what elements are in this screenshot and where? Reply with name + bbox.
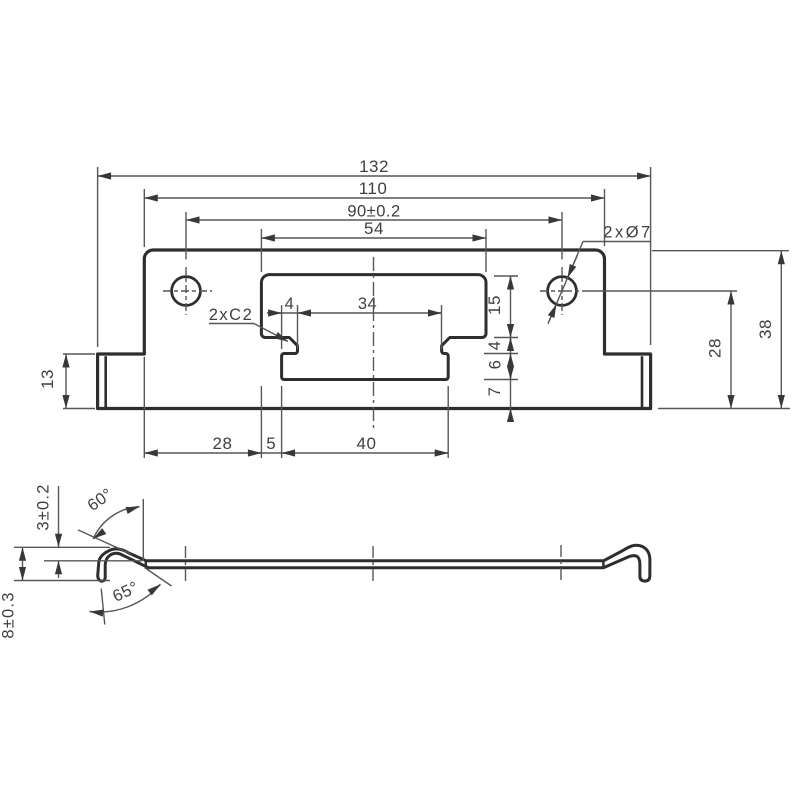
svg-text:110: 110 bbox=[359, 179, 388, 198]
svg-text:8±0.3: 8±0.3 bbox=[0, 591, 18, 638]
dim 28 (right side) bbox=[730, 291, 732, 409]
svg-text:65°: 65° bbox=[110, 578, 142, 605]
svg-text:28: 28 bbox=[706, 338, 725, 358]
left bend line bbox=[104, 356, 107, 407]
dim chain 15/4/6/7 (right of cutout) bbox=[484, 276, 518, 421]
svg-text:13: 13 bbox=[38, 369, 57, 389]
dim 110 bbox=[144, 189, 604, 247]
svg-text:132: 132 bbox=[359, 157, 389, 176]
side view: profile outline bbox=[98, 545, 650, 581]
svg-text:15: 15 bbox=[485, 295, 504, 315]
top view: plate outer outline bbox=[98, 250, 651, 409]
angle 60° bbox=[78, 499, 143, 561]
svg-text:34: 34 bbox=[358, 295, 377, 313]
dim 28 / 5 / 40 (bottom) bbox=[144, 357, 448, 458]
svg-text:4: 4 bbox=[285, 295, 295, 313]
cutout centerline bbox=[373, 257, 375, 428]
dim 13 (left) bbox=[63, 354, 95, 409]
left hole bbox=[172, 277, 201, 306]
right hole centerlines bbox=[540, 267, 737, 315]
dim 38 (far right) bbox=[652, 251, 790, 409]
svg-text:6: 6 bbox=[487, 360, 505, 370]
left hole centerlines bbox=[163, 267, 212, 315]
dim 132 bbox=[98, 167, 651, 347]
svg-text:38: 38 bbox=[756, 319, 775, 339]
dim 3±0.2 (side view) bbox=[14, 486, 142, 578]
svg-text:7: 7 bbox=[486, 387, 504, 397]
dim 90±0.2 bbox=[186, 212, 562, 260]
svg-text:5: 5 bbox=[266, 434, 276, 453]
projection ticks bbox=[186, 545, 562, 581]
angle 65° bbox=[90, 568, 172, 625]
svg-text:54: 54 bbox=[364, 219, 384, 238]
dim 54 bbox=[261, 229, 486, 272]
right bend line bbox=[641, 356, 644, 407]
cutout contour bbox=[261, 275, 486, 380]
svg-text:3±0.2: 3±0.2 bbox=[35, 483, 53, 530]
svg-text:2xØ7: 2xØ7 bbox=[603, 224, 652, 242]
label 2xØ7 with diameter leader bbox=[548, 242, 651, 324]
dim 34 and 4 (waist) bbox=[267, 305, 442, 349]
svg-text:28: 28 bbox=[213, 434, 233, 453]
dim 8±0.3 (side view) bbox=[14, 547, 110, 580]
right hole bbox=[548, 277, 577, 306]
svg-text:60°: 60° bbox=[84, 485, 116, 515]
svg-text:90±0.2: 90±0.2 bbox=[347, 203, 400, 221]
svg-text:4: 4 bbox=[486, 341, 504, 351]
label 2xC2 with leader bbox=[209, 324, 288, 342]
svg-text:2xC2: 2xC2 bbox=[209, 306, 254, 324]
svg-text:40: 40 bbox=[357, 434, 377, 453]
